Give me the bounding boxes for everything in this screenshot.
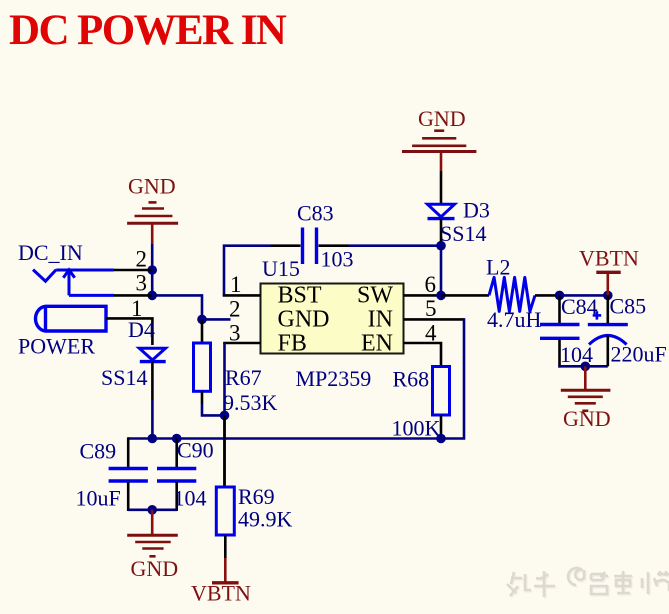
- svg-text:SS14: SS14: [440, 221, 486, 246]
- ground GND power symbol (top left, above jack): [127, 202, 178, 244]
- wire D3 cathode down to C83 node: [440, 219, 443, 246]
- wire caps bottom rail to C85 lead: [558, 365, 608, 368]
- node junction at jack pin 2: [147, 265, 157, 275]
- wire C84 bottom lead: [558, 339, 561, 368]
- svg-text:POWER: POWER: [18, 334, 95, 359]
- wire C90 bottom lead: [175, 482, 178, 511]
- wire jack pin 2 stub: [114, 269, 152, 272]
- svg-text:L2: L2: [486, 255, 510, 280]
- ground GND earth symbol (below C89/C90): [151, 510, 154, 534]
- svg-text:GND: GND: [563, 406, 611, 431]
- power VBTN symbol (bottom): [224, 558, 227, 582]
- wire U15 pin 3 stub: [223, 342, 260, 345]
- wire GND symbol down to jack pins 2,3: [151, 244, 154, 295]
- wire C89 top lead: [127, 437, 130, 467]
- wire VIN rail (IN pin corner down and across to C89): [128, 318, 464, 438]
- svg-text:D4: D4: [128, 317, 155, 342]
- svg-text:2: 2: [229, 297, 241, 322]
- wire D3 node down to SW row: [440, 246, 443, 296]
- wire C85 bottom lead: [606, 335, 609, 366]
- wire U15 pin 5 stub to right corner: [404, 318, 465, 321]
- node junction SW pin row: [436, 291, 446, 301]
- node junction caps bottom right / ground stem: [581, 362, 591, 372]
- svg-text:2: 2: [136, 247, 148, 272]
- node junction C85 top / VBTN: [603, 291, 613, 301]
- wire BST pin up-and-over to C83 left plate: [224, 246, 271, 296]
- wire C83 right plate to D3 node: [319, 244, 349, 247]
- svg-text:GND: GND: [131, 556, 179, 581]
- svg-text:VBTN: VBTN: [579, 245, 639, 270]
- wire C84 top lead: [558, 295, 561, 323]
- svg-text:D3: D3: [463, 198, 490, 223]
- svg-text:R68: R68: [393, 367, 430, 392]
- diode D4: [139, 348, 165, 361]
- wire pin 1 to D4 anode: [106, 318, 152, 345]
- node junction C90 top: [172, 434, 182, 444]
- node junction C83 right / D3: [436, 241, 446, 251]
- wire C89 bottom lead: [127, 482, 130, 511]
- wire EN pin corner down to R68 top: [434, 343, 442, 367]
- svg-text:3: 3: [136, 271, 148, 296]
- wire jack pin 3 stub: [114, 294, 152, 297]
- svg-text:U15: U15: [262, 256, 300, 281]
- ground GND earth symbol (below C84/C85): [584, 366, 587, 389]
- wire GND symbol down to D3 anode: [440, 171, 443, 203]
- capacitor C84: [540, 325, 580, 339]
- diode D3: [428, 204, 455, 218]
- svg-text:C85: C85: [610, 294, 647, 319]
- svg-text:6: 6: [425, 272, 437, 297]
- svg-text:103: 103: [321, 247, 354, 272]
- svg-text:220uF: 220uF: [611, 342, 667, 367]
- svg-text:1: 1: [230, 272, 242, 297]
- wire L2 right lead to output node: [535, 294, 560, 297]
- wire C85 top lead: [606, 295, 609, 323]
- node junction caps bottom / ground stem: [147, 505, 157, 515]
- svg-text:4.7uH: 4.7uH: [487, 307, 542, 332]
- node junction R68 bottom: [436, 434, 446, 444]
- connector DC_IN power jack switch contacts (pins 2,3): [33, 270, 114, 296]
- node junction FB / R67 / R69: [220, 411, 230, 421]
- wire joining C89/C90 bottoms: [128, 508, 177, 511]
- wire junction down to R67 top: [201, 319, 204, 343]
- svg-text:DC_IN: DC_IN: [18, 240, 83, 265]
- svg-text:49.9K: 49.9K: [238, 507, 293, 532]
- watermark 知乎 @智果小芯 (gray layer): [507, 568, 669, 597]
- polarity plus sign of C85: [593, 311, 602, 319]
- capacitor C90: [157, 469, 196, 482]
- svg-text:10uF: 10uF: [76, 486, 121, 511]
- inductor L2: [489, 277, 535, 311]
- wire SW node to L2 left lead: [441, 294, 489, 297]
- svg-text:R67: R67: [225, 365, 262, 390]
- wire FB node down to R69: [223, 343, 226, 487]
- wire R68 bottom to VIN rail: [440, 415, 443, 439]
- node junction D4 cathode / VIN rail: [148, 434, 158, 444]
- svg-text:BST: BST: [278, 283, 322, 309]
- power VBTN symbol (top right): [606, 273, 609, 295]
- svg-text:9.53K: 9.53K: [223, 390, 278, 415]
- wire D4 cathode down to VIN rail: [151, 362, 154, 400]
- wire U15 pin 6 stub to SW node: [404, 294, 442, 297]
- svg-text:100K: 100K: [392, 416, 441, 441]
- svg-text:SW: SW: [357, 283, 393, 309]
- svg-text:SS14: SS14: [101, 365, 147, 390]
- svg-text:C89: C89: [80, 439, 117, 464]
- resistor R69: [216, 487, 234, 535]
- svg-text:GND: GND: [128, 174, 176, 199]
- svg-text:DC POWER IN: DC POWER IN: [9, 7, 287, 54]
- svg-text:MP2359: MP2359: [296, 366, 372, 391]
- svg-text:3: 3: [229, 321, 241, 346]
- watermark 知乎 @智果小芯 (embossed highlight layer): [508, 569, 669, 598]
- svg-text:EN: EN: [361, 331, 393, 357]
- resistor R67: [194, 343, 211, 391]
- wire U15 pin 4 stub: [404, 342, 434, 345]
- node junction at jack pin 3: [147, 291, 157, 301]
- wire R67 bottom jog to FB node: [201, 391, 204, 404]
- svg-text:C83: C83: [297, 201, 334, 226]
- wire C90 top lead: [175, 439, 178, 468]
- svg-text:5: 5: [425, 296, 437, 321]
- svg-text:VBTN: VBTN: [191, 581, 251, 606]
- wire FB node down to R69 top (pin): [223, 415, 226, 487]
- svg-text:IN: IN: [368, 307, 393, 333]
- wire output node across to VBTN stem: [560, 294, 608, 297]
- svg-text:R69: R69: [238, 484, 275, 509]
- svg-text:C90: C90: [177, 438, 214, 463]
- svg-text:C84: C84: [561, 294, 598, 319]
- svg-text:104: 104: [174, 486, 207, 511]
- svg-text:GND: GND: [278, 307, 330, 333]
- node junction C84 top: [555, 291, 565, 301]
- ground GND power symbol (top right, above D3): [402, 131, 476, 171]
- wire R69 bottom to VBTN symbol: [224, 535, 227, 558]
- svg-text:GND: GND: [418, 106, 466, 131]
- capacitor C89: [109, 469, 148, 482]
- capacitor C83: [303, 228, 317, 265]
- wire jack pin 3 to U15 GND pin: [152, 295, 230, 319]
- connector POWER barrel contact (pin 1): [35, 306, 106, 331]
- IC U15 MP2359 body: [261, 284, 404, 354]
- svg-text:FB: FB: [278, 331, 307, 357]
- resistor R68: [433, 367, 450, 416]
- node junction R67 top / U15 GND pin: [197, 315, 207, 325]
- capacitor C85 (polarized): [588, 323, 628, 326]
- wire U15 pin 1 stub: [223, 294, 261, 297]
